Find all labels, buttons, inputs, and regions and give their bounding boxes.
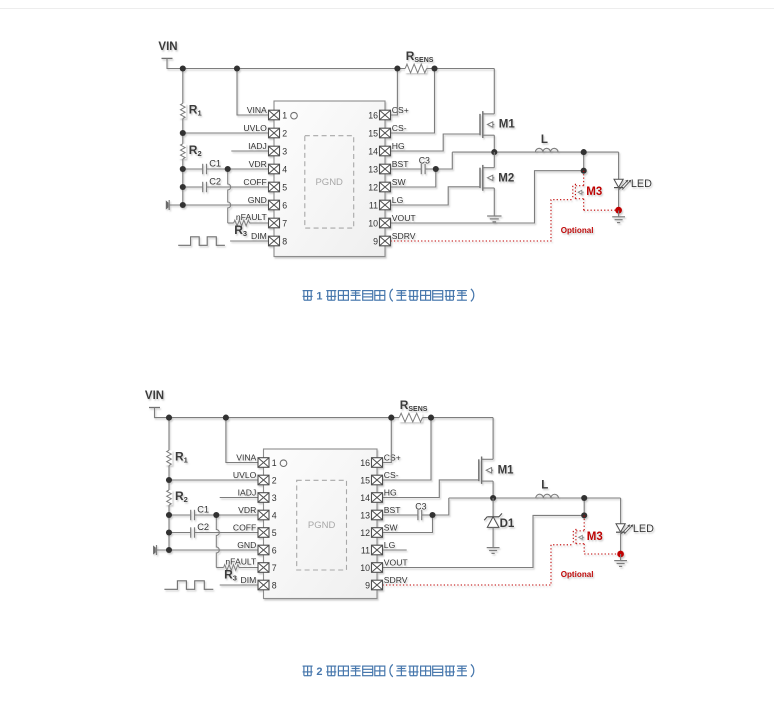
svg-text:VINA: VINA xyxy=(247,105,267,115)
svg-text:9: 9 xyxy=(373,236,378,246)
svg-text:VDR: VDR xyxy=(249,159,267,169)
svg-text:SW: SW xyxy=(392,177,407,187)
svg-text:C1: C1 xyxy=(209,158,221,168)
svg-text:4: 4 xyxy=(272,510,277,520)
svg-text:nFAULT: nFAULT xyxy=(225,557,257,567)
svg-text:12: 12 xyxy=(368,182,378,192)
svg-text:6: 6 xyxy=(282,200,287,210)
svg-text:LED: LED xyxy=(633,523,654,535)
svg-text:C3: C3 xyxy=(419,156,430,166)
svg-text:Optional: Optional xyxy=(561,226,594,235)
svg-text:5: 5 xyxy=(272,528,277,538)
svg-text:HG: HG xyxy=(384,487,397,497)
svg-text:7: 7 xyxy=(282,218,287,228)
svg-text:13: 13 xyxy=(360,510,370,520)
svg-text:DIM: DIM xyxy=(251,231,267,241)
svg-text:6: 6 xyxy=(272,545,277,555)
svg-text:14: 14 xyxy=(368,146,378,156)
svg-text:C2: C2 xyxy=(197,522,209,532)
svg-text:IADJ: IADJ xyxy=(238,487,257,497)
svg-text:11: 11 xyxy=(369,200,378,210)
svg-text:VIN: VIN xyxy=(158,41,177,53)
svg-text:VDR: VDR xyxy=(238,505,256,515)
svg-text:D1: D1 xyxy=(500,518,515,530)
svg-text:10: 10 xyxy=(368,218,378,228)
svg-text:1: 1 xyxy=(316,291,322,303)
svg-text:8: 8 xyxy=(272,580,277,590)
svg-text:16: 16 xyxy=(360,458,370,468)
svg-text:GND: GND xyxy=(237,540,256,550)
svg-text:M2: M2 xyxy=(498,173,514,185)
svg-text:PGND: PGND xyxy=(315,177,343,188)
svg-text:SDRV: SDRV xyxy=(384,575,408,585)
svg-text:2: 2 xyxy=(272,475,277,485)
svg-text:15: 15 xyxy=(360,475,370,485)
svg-text:PGND: PGND xyxy=(308,520,336,531)
svg-text:SW: SW xyxy=(384,522,399,532)
svg-text:12: 12 xyxy=(360,528,370,538)
svg-text:4: 4 xyxy=(282,164,287,174)
svg-text:3: 3 xyxy=(272,493,277,503)
svg-text:L: L xyxy=(541,480,548,492)
svg-text:CS-: CS- xyxy=(392,123,407,133)
svg-text:11: 11 xyxy=(361,545,370,555)
svg-text:VOUT: VOUT xyxy=(392,213,417,223)
svg-text:Optional: Optional xyxy=(561,570,594,579)
svg-text:LED: LED xyxy=(631,178,652,190)
svg-text:16: 16 xyxy=(368,110,378,120)
svg-text:IADJ: IADJ xyxy=(248,141,267,151)
svg-text:13: 13 xyxy=(368,164,378,174)
svg-text:BST: BST xyxy=(384,505,401,515)
svg-text:3: 3 xyxy=(282,146,287,156)
svg-text:1: 1 xyxy=(282,110,287,120)
svg-text:nFAULT: nFAULT xyxy=(236,212,268,222)
svg-text:7: 7 xyxy=(272,563,277,573)
svg-text:1: 1 xyxy=(272,458,277,468)
svg-text:C1: C1 xyxy=(197,504,209,514)
svg-text:M1: M1 xyxy=(498,465,515,477)
svg-text:UVLO: UVLO xyxy=(233,470,257,480)
svg-text:COFF: COFF xyxy=(233,522,256,532)
svg-text:8: 8 xyxy=(282,236,287,246)
svg-text:C3: C3 xyxy=(415,502,426,512)
svg-text:2: 2 xyxy=(316,666,322,678)
svg-text:CS-: CS- xyxy=(384,470,399,480)
svg-text:5: 5 xyxy=(282,182,287,192)
svg-text:M3: M3 xyxy=(587,531,603,543)
svg-text:2: 2 xyxy=(282,128,287,138)
svg-text:CS+: CS+ xyxy=(384,452,401,462)
svg-text:DIM: DIM xyxy=(241,575,257,585)
svg-text:C2: C2 xyxy=(209,176,221,186)
svg-text:VIN: VIN xyxy=(145,390,164,402)
svg-text:HG: HG xyxy=(392,141,405,151)
svg-text:BST: BST xyxy=(392,159,409,169)
svg-text:VOUT: VOUT xyxy=(384,557,409,567)
svg-text:L: L xyxy=(541,134,548,146)
svg-text:15: 15 xyxy=(368,128,378,138)
svg-text:GND: GND xyxy=(248,195,267,205)
svg-text:14: 14 xyxy=(360,493,370,503)
svg-text:CS+: CS+ xyxy=(392,105,409,115)
svg-text:SDRV: SDRV xyxy=(392,231,416,241)
svg-text:M3: M3 xyxy=(586,186,602,198)
svg-text:LG: LG xyxy=(392,195,404,205)
svg-text:VINA: VINA xyxy=(236,452,256,462)
svg-text:LG: LG xyxy=(384,540,396,550)
svg-text:9: 9 xyxy=(365,580,370,590)
svg-text:10: 10 xyxy=(360,563,370,573)
svg-text:COFF: COFF xyxy=(243,177,266,187)
svg-text:UVLO: UVLO xyxy=(243,123,267,133)
svg-text:M1: M1 xyxy=(499,119,516,131)
